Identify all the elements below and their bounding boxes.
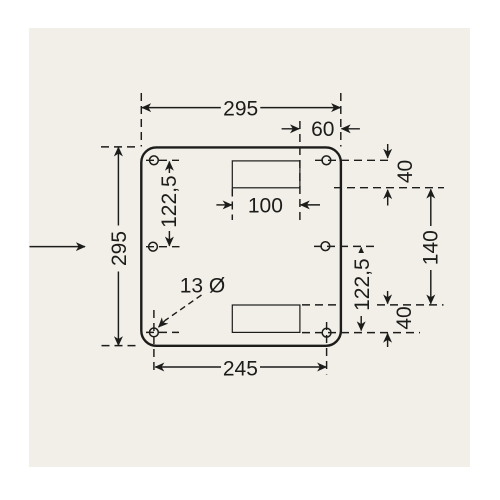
svg-text:40: 40	[394, 160, 417, 183]
svg-text:100: 100	[248, 195, 283, 218]
svg-text:122,5: 122,5	[158, 175, 181, 228]
svg-text:295: 295	[108, 231, 131, 266]
svg-text:60: 60	[311, 118, 334, 141]
svg-text:13 Ø: 13 Ø	[180, 274, 226, 297]
svg-text:295: 295	[223, 97, 258, 120]
svg-text:140: 140	[419, 230, 442, 265]
svg-text:122,5: 122,5	[351, 258, 374, 311]
svg-text:245: 245	[223, 358, 258, 381]
svg-text:40: 40	[393, 306, 416, 329]
